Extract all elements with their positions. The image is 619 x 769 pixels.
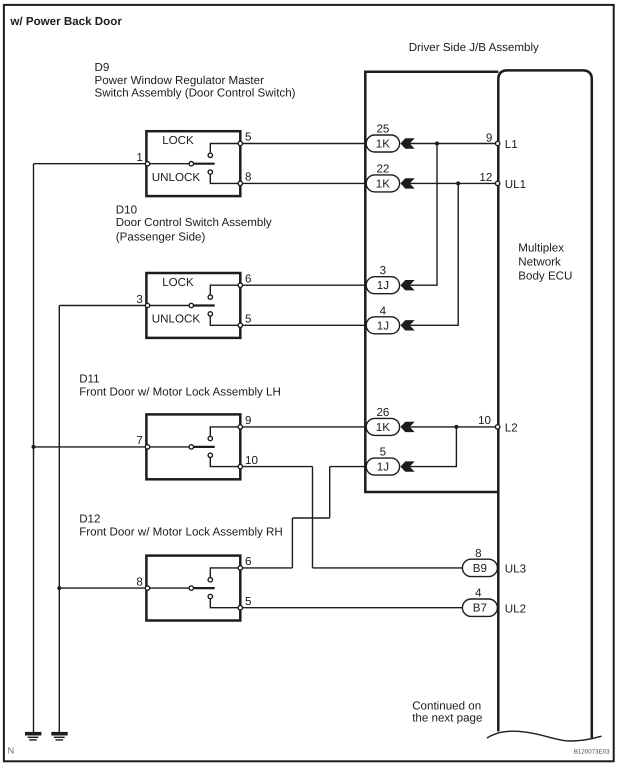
svg-text:5: 5 <box>245 595 251 608</box>
svg-text:B120073E03: B120073E03 <box>574 748 610 755</box>
switch D11 pin10 terminal circle <box>238 464 242 468</box>
switch D10 internal wire common to pivot <box>148 305 192 307</box>
switch D10 lock contact circle <box>208 295 212 299</box>
svg-text:the next page: the next page <box>412 712 482 725</box>
switch D12 movable arm <box>191 587 214 589</box>
svg-text:5: 5 <box>245 313 251 326</box>
junction dot on UL1 wire <box>456 181 460 185</box>
switch D12 box <box>146 556 240 621</box>
svg-text:7: 7 <box>136 434 142 447</box>
arrow into 1J pin5 <box>401 461 415 471</box>
wire D11 pin7 to left bus 1 <box>34 446 148 448</box>
arrow into 1J pin3 <box>401 280 415 290</box>
switch D11 lock contact circle <box>208 436 212 440</box>
svg-text:9: 9 <box>245 414 251 427</box>
switch D9 pivot circle <box>189 162 193 166</box>
wire connector 1K-22 arrow to ECU UL1 <box>408 182 498 184</box>
switch D9 pin5 terminal circle <box>238 141 242 145</box>
wire 1J-5 branch vertical to D12 pin6 level <box>291 518 293 568</box>
wire branch from L2 node down to 1J-5 arrow <box>408 427 456 467</box>
svg-text:6: 6 <box>245 555 251 568</box>
switch D10 unlock contact circle <box>208 312 212 316</box>
svg-text:1J: 1J <box>377 279 389 292</box>
svg-text:L1: L1 <box>505 138 518 151</box>
switch D10 movable arm <box>191 304 214 306</box>
svg-text:Front Door w/ Motor Lock Assem: Front Door w/ Motor Lock Assembly LH <box>79 385 281 398</box>
wire connector 1K-26 arrow to ECU L2 <box>408 426 498 428</box>
svg-text:LOCK: LOCK <box>162 134 194 147</box>
wire D9 pin8 to connector 1K-22 <box>240 182 367 184</box>
switch D10 lock contact riser <box>210 285 240 297</box>
switch D9 lock contact riser <box>210 144 240 156</box>
switch D10 unlock contact riser <box>210 314 240 325</box>
connector oval B7 <box>462 599 497 616</box>
svg-text:1K: 1K <box>376 138 390 151</box>
ground symbol 2 <box>51 732 67 740</box>
wire connector 1J-5 left stub <box>330 466 367 468</box>
svg-text:Power Window Regulator Master: Power Window Regulator Master <box>95 74 265 87</box>
svg-text:1J: 1J <box>377 461 389 474</box>
wire D11 pin10 right segment <box>240 466 312 468</box>
switch D12 lock contact riser <box>210 568 240 580</box>
svg-text:UL2: UL2 <box>505 602 526 615</box>
connector oval 1J pin5 <box>366 458 399 475</box>
svg-text:4: 4 <box>380 304 387 317</box>
svg-text:12: 12 <box>479 171 492 184</box>
svg-text:(Passenger Side): (Passenger Side) <box>116 231 206 244</box>
ECU terminal circle L2 <box>495 425 499 429</box>
svg-text:22: 22 <box>376 162 389 175</box>
svg-text:Driver Side J/B Assembly: Driver Side J/B Assembly <box>409 41 539 54</box>
svg-text:UL3: UL3 <box>505 563 526 576</box>
switch D11 lock contact riser <box>210 427 240 439</box>
arrow into 1K pin25 <box>401 138 415 148</box>
switch D12 pin6 terminal circle <box>238 566 242 570</box>
switch D11 unlock contact riser <box>210 455 240 466</box>
switch D12 pivot circle <box>189 586 193 590</box>
svg-text:B7: B7 <box>473 602 487 615</box>
wire D9 pin1 to left bus <box>34 163 148 165</box>
svg-text:w/ Power Back Door: w/ Power Back Door <box>9 15 122 28</box>
svg-text:10: 10 <box>245 454 258 467</box>
svg-text:Front Door w/ Motor Lock Assem: Front Door w/ Motor Lock Assembly RH <box>79 525 283 538</box>
wire branch from UL1 node down to 1J-4 arrow <box>408 183 458 325</box>
connector oval 1J pin3 <box>366 277 399 294</box>
switch D11 internal wire common to pivot <box>148 446 192 448</box>
junction dot on L1 wire <box>435 142 439 146</box>
switch D10 pivot circle <box>189 303 193 307</box>
switch D11 unlock contact circle <box>208 453 212 457</box>
svg-text:Network: Network <box>518 256 561 269</box>
switch D9 unlock contact riser <box>210 172 240 183</box>
svg-text:Multiplex: Multiplex <box>518 242 564 255</box>
svg-text:D12: D12 <box>79 513 100 526</box>
switch D12 lock contact circle <box>208 578 212 582</box>
svg-text:B9: B9 <box>473 562 487 575</box>
svg-text:1: 1 <box>136 151 142 164</box>
switch D9 lock contact circle <box>208 153 212 157</box>
svg-text:8: 8 <box>245 171 251 184</box>
wire D12 pin8 to left bus 2 <box>59 587 147 589</box>
switch D11 box <box>146 414 240 479</box>
svg-text:1J: 1J <box>377 319 389 332</box>
wire to connector B9 horizontal <box>313 567 465 569</box>
wire left bus 2 vertical to ground <box>58 306 60 733</box>
wire left bus 1 vertical to ground <box>33 164 35 732</box>
ground symbol 1 <box>25 732 41 740</box>
switch D11 movable arm <box>191 446 214 448</box>
switch D9 box <box>146 131 240 196</box>
switch D11 pin9 terminal circle <box>238 425 242 429</box>
svg-text:6: 6 <box>245 272 251 285</box>
switch D12 unlock contact circle <box>208 594 212 598</box>
wire D11 pin9 to connector 1K-26 <box>240 426 367 428</box>
svg-text:UNLOCK: UNLOCK <box>152 171 201 184</box>
wire D12 pin5 to connector B7 <box>240 607 464 609</box>
wire D10 pin3 to left bus 2 <box>59 305 147 307</box>
svg-text:26: 26 <box>376 406 389 419</box>
wire D9 pin5 to connector 1K-25 <box>240 143 367 145</box>
switch D9 pin8 terminal circle <box>238 181 242 185</box>
wire D11 pin10 vertical down <box>312 467 314 568</box>
svg-text:4: 4 <box>475 587 482 600</box>
svg-text:D10: D10 <box>116 203 137 216</box>
switch D12 internal wire common to pivot <box>148 587 192 589</box>
arrow into 1J pin4 <box>401 320 415 330</box>
wire branch from L1 node down to 1J-3 arrow <box>408 144 437 286</box>
svg-text:L2: L2 <box>505 422 518 435</box>
svg-text:3: 3 <box>380 264 386 277</box>
switch D9 unlock contact circle <box>208 170 212 174</box>
switch D10 box <box>146 273 240 338</box>
switch D10 pin6 terminal circle <box>238 283 242 287</box>
svg-text:D9: D9 <box>95 61 110 74</box>
svg-text:UNLOCK: UNLOCK <box>152 313 201 326</box>
connector oval B9 <box>462 559 497 576</box>
switch D9 movable arm <box>191 163 214 165</box>
svg-text:LOCK: LOCK <box>162 276 194 289</box>
switch D9 pin1 terminal circle <box>145 162 149 166</box>
svg-text:10: 10 <box>478 414 491 427</box>
svg-text:3: 3 <box>136 293 142 306</box>
switch D12 unlock contact riser <box>210 597 240 608</box>
arrow into 1K pin22 <box>401 178 415 188</box>
svg-text:N: N <box>8 746 15 756</box>
svg-text:Switch Assembly (Door Control: Switch Assembly (Door Control Switch) <box>95 87 296 100</box>
svg-text:5: 5 <box>380 446 386 459</box>
connector oval 1J pin4 <box>366 317 399 334</box>
Multiplex Network Body ECU box <box>498 70 592 739</box>
wire D12 pin6 right segment <box>240 567 292 569</box>
wire D10 pin6 to connector 1J-3 <box>240 284 367 286</box>
wire connector 1K-25 arrow to ECU L1 <box>408 143 498 145</box>
connector oval 1K pin22 <box>366 175 399 192</box>
svg-text:D11: D11 <box>79 373 99 386</box>
switch D9 internal wire common to pivot <box>148 163 192 165</box>
wire 1J-5 branch vertical <box>329 467 331 518</box>
svg-text:UL1: UL1 <box>505 178 526 191</box>
junction dot left bus 1 at D11 pin7 <box>32 445 36 449</box>
switch D12 pin5 terminal circle <box>238 606 242 610</box>
switch D10 pin3 terminal circle <box>145 303 149 307</box>
svg-text:5: 5 <box>245 131 251 144</box>
svg-text:8: 8 <box>136 575 142 588</box>
ECU terminal circle L1 <box>495 141 499 145</box>
junction dot left bus 2 at D12 pin8 <box>57 586 61 590</box>
continuation break wavy line <box>487 731 602 741</box>
switch D12 pin8 terminal circle <box>145 586 149 590</box>
svg-text:1K: 1K <box>376 177 390 190</box>
svg-text:8: 8 <box>475 547 481 560</box>
connector oval 1K pin25 <box>366 135 399 152</box>
junction dot on L2 wire <box>454 425 458 429</box>
svg-text:9: 9 <box>486 131 492 144</box>
wire D10 pin5 to connector 1J-4 <box>240 324 367 326</box>
switch D10 pin5 terminal circle <box>238 323 242 327</box>
svg-text:25: 25 <box>376 123 389 136</box>
switch D11 pin7 terminal circle <box>145 445 149 449</box>
svg-text:Door Control Switch Assembly: Door Control Switch Assembly <box>116 216 272 229</box>
wire 1J-5 branch horizontal crossover <box>292 517 329 519</box>
svg-text:Body ECU: Body ECU <box>518 270 572 283</box>
connector oval 1K pin26 <box>366 418 399 435</box>
svg-text:1K: 1K <box>376 421 390 434</box>
arrow into 1K pin26 <box>401 422 415 432</box>
ECU terminal circle UL1 <box>495 181 499 185</box>
switch D11 pivot circle <box>189 445 193 449</box>
Driver Side J/B Assembly box <box>365 72 498 492</box>
svg-text:Continued on: Continued on <box>412 699 481 712</box>
